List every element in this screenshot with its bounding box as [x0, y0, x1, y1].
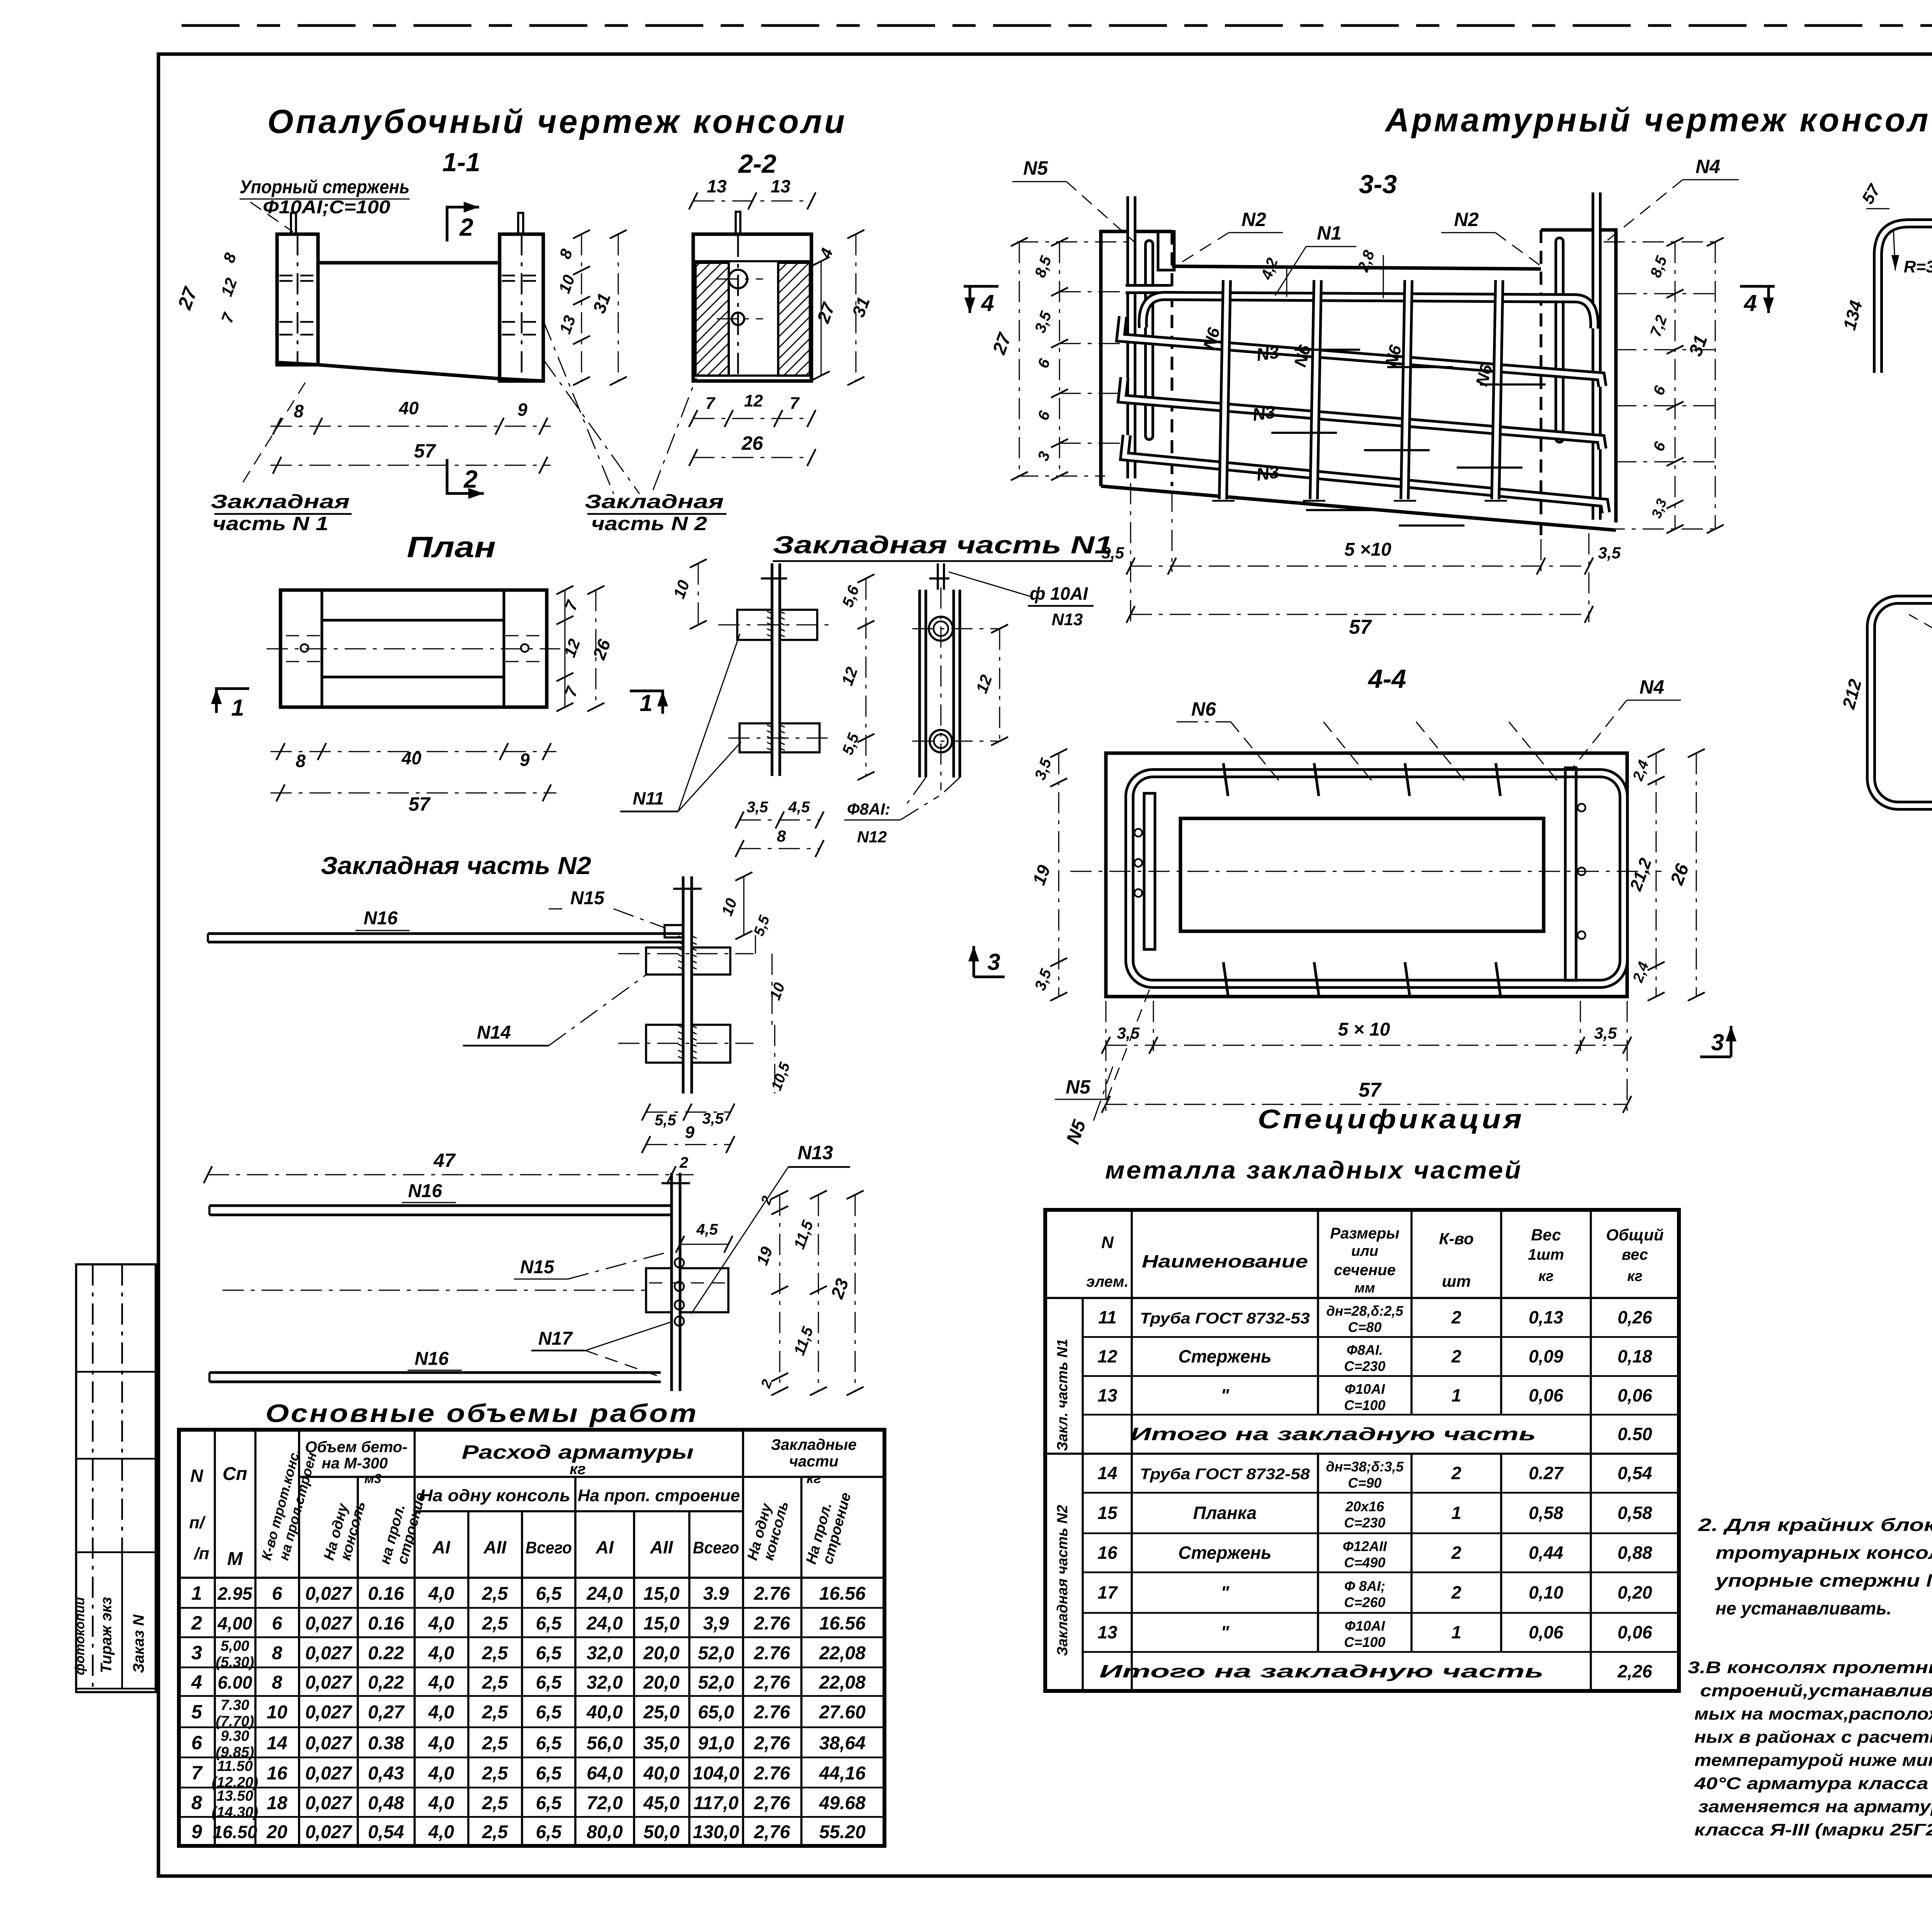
svg-text:15,0: 15,0: [643, 1584, 680, 1604]
svg-text:0,027: 0,027: [305, 1584, 352, 1604]
svg-text:13: 13: [707, 176, 727, 196]
svg-text:С=230: С=230: [1344, 1515, 1385, 1531]
svg-text:N16: N16: [364, 908, 398, 929]
svg-text:4: 4: [1743, 290, 1757, 316]
svg-text:4,0: 4,0: [428, 1733, 454, 1754]
svg-text:6,5: 6,5: [536, 1763, 562, 1784]
svg-text:2,5: 2,5: [482, 1822, 509, 1842]
svg-text:45,0: 45,0: [643, 1793, 680, 1813]
svg-text:2,5: 2,5: [482, 1793, 509, 1813]
svg-text:3,5: 3,5: [702, 1110, 724, 1127]
svg-text:1: 1: [1451, 1622, 1461, 1642]
svg-text:N1: N1: [1317, 222, 1342, 244]
svg-text:К-во: К-во: [1439, 1230, 1474, 1248]
svg-text:N: N: [1101, 1233, 1114, 1252]
svg-text:47: 47: [433, 1150, 456, 1171]
svg-text:N15: N15: [570, 888, 605, 908]
svg-text:0,10: 0,10: [1529, 1582, 1563, 1602]
svg-text:20x16: 20x16: [1345, 1499, 1384, 1514]
svg-text:N11: N11: [633, 788, 664, 808]
svg-text:сечение: сечение: [1334, 1262, 1396, 1279]
svg-text:часть N 1: часть N 1: [213, 513, 328, 534]
svg-text:": ": [1221, 1582, 1230, 1602]
svg-text:С=230: С=230: [1344, 1358, 1385, 1374]
svg-text:52,0: 52,0: [698, 1672, 734, 1693]
svg-text:130,0: 130,0: [693, 1822, 739, 1842]
svg-text:15,0: 15,0: [643, 1613, 680, 1634]
svg-text:16.56: 16.56: [819, 1613, 866, 1634]
svg-text:18: 18: [267, 1793, 287, 1813]
svg-text:С=490: С=490: [1344, 1555, 1385, 1570]
svg-text:(7.70): (7.70): [216, 1713, 254, 1730]
svg-text:4,0: 4,0: [428, 1763, 454, 1784]
svg-text:6,5: 6,5: [536, 1672, 562, 1693]
svg-text:80,0: 80,0: [587, 1822, 623, 1842]
svg-text:91,0: 91,0: [698, 1733, 734, 1754]
svg-text:4,0: 4,0: [428, 1822, 454, 1842]
svg-text:N4: N4: [1696, 156, 1720, 177]
svg-text:57: 57: [1349, 616, 1372, 638]
svg-text:20,0: 20,0: [643, 1643, 680, 1664]
svg-text:/п: /п: [193, 1544, 209, 1563]
svg-text:0,027: 0,027: [305, 1793, 352, 1813]
svg-text:3-3: 3-3: [1359, 170, 1397, 199]
svg-text:3.9: 3.9: [703, 1584, 729, 1604]
svg-text:4,5: 4,5: [696, 1221, 718, 1238]
svg-text:32,0: 32,0: [587, 1643, 623, 1664]
svg-text:2: 2: [191, 1612, 202, 1634]
svg-text:0.50: 0.50: [1617, 1424, 1652, 1444]
svg-text:1: 1: [231, 695, 244, 721]
svg-text:22,08: 22,08: [819, 1672, 866, 1693]
svg-text:N3: N3: [1255, 461, 1281, 485]
svg-text:9.30: 9.30: [221, 1728, 249, 1744]
svg-text:2: 2: [1451, 1346, 1461, 1366]
svg-text:5 × 10: 5 × 10: [1338, 1019, 1390, 1040]
svg-text:Закл. часть N1: Закл. часть N1: [1054, 1339, 1071, 1451]
svg-text:3,5: 3,5: [747, 799, 768, 816]
svg-text:Итого на закладную часть: Итого на закладную часть: [1130, 1424, 1536, 1444]
svg-text:8: 8: [191, 1792, 202, 1813]
svg-text:65,0: 65,0: [698, 1702, 734, 1723]
svg-text:5,5: 5,5: [655, 1112, 676, 1129]
svg-text:35,0: 35,0: [643, 1733, 680, 1754]
svg-text:7: 7: [706, 394, 716, 413]
svg-text:1шт: 1шт: [1528, 1246, 1564, 1263]
svg-text:5,00: 5,00: [221, 1638, 249, 1654]
svg-text:0,44: 0,44: [1529, 1543, 1563, 1563]
svg-text:0,20: 0,20: [1617, 1582, 1652, 1602]
svg-text:0,027: 0,027: [305, 1822, 352, 1842]
svg-text:22,08: 22,08: [819, 1643, 866, 1664]
svg-text:0,27: 0,27: [368, 1702, 405, 1723]
svg-text:части: части: [789, 1453, 838, 1470]
svg-text:N15: N15: [520, 1257, 554, 1277]
svg-text:0,06: 0,06: [1617, 1622, 1652, 1642]
svg-text:АII: АII: [650, 1537, 673, 1557]
svg-text:40: 40: [401, 748, 422, 768]
svg-text:4,5: 4,5: [788, 799, 810, 816]
svg-text:8: 8: [294, 401, 304, 421]
svg-text:С=100: С=100: [1344, 1397, 1385, 1413]
svg-text:Ф10АI: Ф10АI: [1345, 1381, 1385, 1397]
svg-text:0,43: 0,43: [368, 1763, 404, 1784]
svg-text:6,5: 6,5: [536, 1584, 562, 1604]
svg-text:52,0: 52,0: [698, 1643, 734, 1664]
svg-text:4: 4: [191, 1671, 202, 1693]
svg-text:3,5: 3,5: [1102, 544, 1124, 562]
svg-text:не устанавливать.: не устанавливать.: [1716, 1598, 1891, 1618]
svg-text:N13: N13: [798, 1142, 833, 1163]
svg-text:0,58: 0,58: [1617, 1503, 1652, 1523]
svg-text:40: 40: [398, 398, 419, 418]
svg-text:44,16: 44,16: [819, 1763, 866, 1784]
svg-text:0,26: 0,26: [1617, 1307, 1652, 1327]
svg-text:24,0: 24,0: [586, 1584, 623, 1604]
svg-text:": ": [1221, 1385, 1230, 1405]
svg-text:3,5: 3,5: [1594, 1024, 1617, 1042]
svg-text:Сп: Сп: [223, 1464, 247, 1484]
svg-text:2: 2: [679, 1154, 688, 1171]
svg-text:2.76: 2.76: [753, 1584, 790, 1604]
svg-text:дн=38;δ:3,5: дн=38;δ:3,5: [1326, 1459, 1404, 1475]
svg-text:N5: N5: [1023, 157, 1048, 179]
svg-text:0.27: 0.27: [1529, 1463, 1564, 1483]
svg-text:Всего: Всего: [693, 1538, 739, 1557]
svg-text:мых на мостах,расположен: мых на мостах,расположен: [1694, 1704, 1932, 1723]
svg-text:Закладная: Закладная: [585, 491, 724, 512]
svg-text:Упорный стержень: Упорный стержень: [240, 177, 410, 197]
svg-text:2,5: 2,5: [482, 1733, 509, 1754]
svg-text:13: 13: [1097, 1385, 1117, 1405]
svg-text:АI: АI: [432, 1537, 451, 1557]
svg-text:Стержень: Стержень: [1178, 1543, 1271, 1563]
svg-text:вес: вес: [1622, 1246, 1648, 1263]
svg-text:или: или: [1351, 1243, 1378, 1259]
svg-text:кг: кг: [1627, 1268, 1643, 1284]
svg-text:упорные стержни N13: упорные стержни N13: [1715, 1570, 1932, 1590]
svg-text:Опалубочный чертеж консоли: Опалубочный чертеж консоли: [267, 103, 847, 140]
svg-text:6,5: 6,5: [536, 1733, 562, 1754]
svg-text:Закладная часть N2: Закладная часть N2: [321, 852, 591, 879]
svg-text:Арматурный чертеж консоли: Арматурный чертеж консоли: [1384, 102, 1932, 139]
svg-text:2,26: 2,26: [1617, 1661, 1652, 1681]
svg-text:13.50: 13.50: [216, 1788, 253, 1804]
svg-text:6,5: 6,5: [536, 1702, 562, 1723]
svg-text:N12: N12: [857, 828, 887, 846]
svg-text:Труба ГОСТ 8732-53: Труба ГОСТ 8732-53: [1140, 1310, 1310, 1327]
svg-text:2-2: 2-2: [738, 149, 776, 179]
svg-text:0.16: 0.16: [368, 1584, 404, 1604]
svg-text:2,5: 2,5: [482, 1763, 509, 1784]
svg-text:0,027: 0,027: [305, 1733, 352, 1754]
svg-text:0,88: 0,88: [1617, 1543, 1652, 1563]
svg-text:1: 1: [639, 690, 652, 716]
svg-text:2: 2: [1451, 1543, 1461, 1563]
svg-text:N16: N16: [415, 1349, 449, 1369]
svg-text:56,0: 56,0: [587, 1733, 623, 1754]
svg-text:7.30: 7.30: [221, 1697, 249, 1713]
svg-text:4,0: 4,0: [428, 1584, 454, 1604]
svg-text:класса Я-III (марки 25Г2С).: класса Я-III (марки 25Г2С).: [1694, 1820, 1932, 1839]
svg-text:п/: п/: [189, 1513, 206, 1532]
svg-text:кг: кг: [570, 1461, 586, 1478]
svg-text:Наименование: Наименование: [1142, 1251, 1308, 1271]
svg-text:N4: N4: [1639, 676, 1664, 698]
svg-text:С=90: С=90: [1348, 1475, 1381, 1491]
svg-text:5 ×10: 5 ×10: [1344, 539, 1391, 560]
svg-text:0.38: 0.38: [368, 1733, 404, 1754]
svg-text:N14: N14: [477, 1022, 511, 1043]
svg-text:ф 10АI: ф 10АI: [1030, 583, 1088, 604]
svg-text:12: 12: [1097, 1346, 1117, 1366]
svg-text:кг: кг: [1538, 1268, 1554, 1284]
svg-text:2,76: 2,76: [753, 1733, 790, 1754]
svg-text:9: 9: [517, 400, 527, 420]
svg-text:55.20: 55.20: [819, 1822, 866, 1842]
svg-text:2: 2: [463, 465, 478, 493]
svg-text:0,09: 0,09: [1529, 1346, 1563, 1366]
svg-text:4,0: 4,0: [428, 1793, 454, 1813]
svg-text:4: 4: [981, 290, 994, 316]
svg-text:6,5: 6,5: [536, 1793, 562, 1813]
svg-text:Планка: Планка: [1193, 1503, 1257, 1523]
svg-text:16: 16: [267, 1763, 287, 1784]
svg-text:АII: АII: [483, 1537, 507, 1557]
svg-text:Размеры: Размеры: [1330, 1225, 1399, 1242]
svg-text:2: 2: [459, 213, 473, 241]
svg-text:8: 8: [777, 827, 786, 845]
svg-text:15: 15: [1097, 1503, 1118, 1523]
svg-text:27.60: 27.60: [819, 1702, 866, 1723]
svg-text:3.В консолях пролетных: 3.В консолях пролетных: [1688, 1658, 1932, 1677]
svg-text:Закладная часть N2: Закладная часть N2: [1054, 1505, 1071, 1656]
svg-text:(5.30): (5.30): [216, 1654, 254, 1670]
svg-text:25,0: 25,0: [643, 1702, 680, 1723]
svg-text:N16: N16: [408, 1181, 442, 1201]
svg-text:5: 5: [191, 1701, 202, 1723]
svg-text:0,027: 0,027: [305, 1702, 352, 1723]
svg-text:R=36: R=36: [1904, 257, 1932, 276]
svg-text:104,0: 104,0: [693, 1763, 739, 1784]
svg-text:0.22: 0.22: [368, 1643, 404, 1664]
svg-text:Заказ N: Заказ N: [130, 1614, 147, 1673]
svg-text:0,06: 0,06: [1529, 1385, 1563, 1405]
svg-text:": ": [1221, 1622, 1230, 1642]
svg-text:20: 20: [266, 1822, 287, 1842]
svg-text:1: 1: [1451, 1385, 1461, 1405]
svg-text:Объем бето-: Объем бето-: [305, 1439, 408, 1456]
svg-text:0,48: 0,48: [368, 1793, 404, 1813]
svg-text:9: 9: [685, 1123, 695, 1142]
svg-text:2,5: 2,5: [482, 1672, 509, 1693]
svg-text:6: 6: [191, 1732, 202, 1754]
svg-text:2.76: 2.76: [753, 1763, 790, 1784]
svg-text:3,5: 3,5: [1598, 544, 1621, 562]
svg-text:2,76: 2,76: [753, 1672, 790, 1693]
svg-text:2,5: 2,5: [482, 1584, 509, 1604]
svg-text:С=80: С=80: [1348, 1319, 1381, 1335]
svg-text:мм: мм: [1354, 1280, 1375, 1296]
svg-text:57: 57: [408, 793, 431, 815]
svg-text:Тираж экз: Тираж экз: [98, 1597, 115, 1673]
svg-text:7: 7: [790, 394, 800, 413]
svg-text:Ф8АI.: Ф8АI.: [1347, 1342, 1383, 1358]
svg-text:49.68: 49.68: [819, 1793, 866, 1813]
svg-text:Итого на закладную часть: Итого на закладную часть: [1099, 1661, 1544, 1681]
svg-text:2. Для крайних блоков: 2. Для крайних блоков: [1698, 1515, 1932, 1535]
svg-text:Ф8АI:: Ф8АI:: [847, 800, 890, 818]
svg-text:N: N: [190, 1466, 203, 1486]
svg-text:На одну консоль: На одну консоль: [420, 1486, 570, 1505]
svg-text:64,0: 64,0: [587, 1763, 623, 1784]
svg-text:заменяется на арматуру: заменяется на арматуру: [1698, 1797, 1932, 1816]
svg-text:2: 2: [1451, 1463, 1461, 1483]
svg-text:2,76: 2,76: [753, 1822, 790, 1842]
svg-text:20,0: 20,0: [643, 1672, 680, 1693]
svg-text:7: 7: [191, 1762, 203, 1784]
svg-text:фотокопии: фотокопии: [73, 1597, 87, 1675]
svg-text:N3: N3: [1255, 342, 1281, 365]
svg-text:Спецификация: Спецификация: [1258, 1104, 1524, 1134]
svg-text:М: М: [227, 1549, 243, 1569]
svg-text:металла закладных частей: металла закладных частей: [1105, 1156, 1522, 1184]
svg-text:6,5: 6,5: [536, 1643, 562, 1664]
svg-text:На проп. строение: На проп. строение: [578, 1486, 740, 1505]
svg-text:9: 9: [520, 750, 530, 770]
svg-text:0.16: 0.16: [368, 1613, 404, 1634]
svg-text:117,0: 117,0: [694, 1793, 739, 1813]
svg-text:N17: N17: [538, 1328, 573, 1349]
svg-text:50,0: 50,0: [643, 1822, 680, 1842]
svg-text:АI: АI: [595, 1537, 614, 1557]
svg-text:11: 11: [1098, 1307, 1117, 1327]
svg-text:3,5: 3,5: [1117, 1024, 1140, 1042]
svg-text:2.76: 2.76: [753, 1702, 790, 1723]
svg-text:ных в районах с расчетной: ных в районах с расчетной: [1694, 1728, 1932, 1747]
svg-text:2,5: 2,5: [482, 1643, 509, 1664]
svg-text:0,06: 0,06: [1617, 1385, 1652, 1405]
svg-text:4,0: 4,0: [428, 1672, 454, 1693]
svg-text:N5: N5: [1066, 1076, 1091, 1098]
svg-text:32,0: 32,0: [587, 1672, 623, 1693]
svg-text:2,76: 2,76: [753, 1793, 790, 1813]
svg-text:14: 14: [1097, 1463, 1117, 1483]
svg-text:8: 8: [272, 1643, 282, 1664]
svg-text:0,58: 0,58: [1529, 1503, 1563, 1523]
svg-text:4,0: 4,0: [428, 1613, 454, 1634]
svg-text:13: 13: [770, 176, 791, 196]
svg-text:температурой ниже минус: температурой ниже минус: [1694, 1751, 1932, 1770]
svg-text:3: 3: [191, 1642, 202, 1664]
svg-text:6: 6: [272, 1584, 282, 1604]
svg-text:1: 1: [1451, 1503, 1461, 1523]
svg-text:N2: N2: [1454, 209, 1479, 230]
svg-text:Вес: Вес: [1531, 1226, 1561, 1244]
svg-text:Закладная часть N1: Закладная часть N1: [773, 531, 1113, 559]
svg-text:2: 2: [1451, 1307, 1461, 1327]
svg-text:2,5: 2,5: [482, 1702, 509, 1723]
svg-text:тротуарных консолей: тротуарных консолей: [1716, 1543, 1932, 1563]
svg-text:Всего: Всего: [526, 1538, 572, 1557]
svg-text:Общий: Общий: [1606, 1226, 1663, 1244]
svg-text:0,027: 0,027: [305, 1763, 352, 1784]
svg-text:Ф10АI;С=100: Ф10АI;С=100: [263, 197, 390, 218]
svg-text:N3: N3: [1251, 401, 1277, 425]
svg-text:3: 3: [1711, 1029, 1724, 1055]
svg-text:Основные объемы работ: Основные объемы работ: [265, 1399, 698, 1427]
svg-text:2.76: 2.76: [753, 1613, 790, 1634]
svg-text:С=260: С=260: [1344, 1594, 1385, 1610]
svg-text:шт: шт: [1442, 1272, 1471, 1290]
svg-text:10: 10: [267, 1702, 287, 1723]
svg-text:Закладные: Закладные: [771, 1436, 857, 1453]
svg-text:Ф 8АI;: Ф 8АI;: [1344, 1578, 1385, 1594]
svg-text:17: 17: [1097, 1582, 1118, 1602]
svg-text:6: 6: [272, 1613, 282, 1634]
svg-text:Расход арматуры: Расход арматуры: [462, 1441, 694, 1463]
svg-text:1: 1: [191, 1582, 202, 1604]
svg-text:4-4: 4-4: [1367, 664, 1406, 694]
svg-text:24,0: 24,0: [586, 1613, 623, 1634]
svg-text:0,06: 0,06: [1529, 1622, 1563, 1642]
svg-text:40°С арматура класса ЯII: 40°С арматура класса ЯII: [1694, 1774, 1932, 1793]
svg-text:4,00: 4,00: [217, 1613, 252, 1633]
svg-text:дн=28,δ:2,5: дн=28,δ:2,5: [1326, 1303, 1403, 1319]
svg-text:16: 16: [1097, 1543, 1117, 1563]
svg-text:Закладная: Закладная: [211, 491, 350, 512]
svg-text:38,64: 38,64: [819, 1733, 866, 1754]
svg-text:на М-300: на М-300: [322, 1455, 388, 1472]
svg-text:Труба ГОСТ 8732-58: Труба ГОСТ 8732-58: [1140, 1466, 1310, 1483]
svg-text:2,5: 2,5: [482, 1613, 509, 1634]
svg-text:6,5: 6,5: [536, 1613, 562, 1634]
svg-text:План: План: [407, 531, 496, 564]
svg-text:0,027: 0,027: [305, 1643, 352, 1664]
svg-text:Ф12АII: Ф12АII: [1343, 1538, 1387, 1554]
svg-text:8: 8: [296, 751, 306, 771]
svg-text:N2: N2: [1242, 209, 1266, 230]
svg-text:26: 26: [741, 432, 764, 454]
svg-text:1-1: 1-1: [442, 148, 480, 177]
svg-text:0,54: 0,54: [368, 1822, 404, 1842]
svg-text:строений,устанавливае-: строений,устанавливае-: [1700, 1681, 1932, 1700]
svg-text:м3: м3: [364, 1471, 381, 1486]
svg-text:0,027: 0,027: [305, 1613, 352, 1634]
svg-text:40,0: 40,0: [643, 1763, 680, 1784]
svg-text:9: 9: [191, 1821, 202, 1842]
svg-text:0,54: 0,54: [1617, 1463, 1652, 1483]
svg-text:2: 2: [1451, 1582, 1461, 1602]
svg-text:4,0: 4,0: [428, 1643, 454, 1664]
svg-text:11.50: 11.50: [217, 1758, 253, 1774]
svg-text:2.95: 2.95: [217, 1584, 253, 1604]
svg-text:2.76: 2.76: [753, 1643, 790, 1664]
svg-text:кг: кг: [806, 1470, 821, 1486]
svg-text:13: 13: [1097, 1622, 1117, 1642]
svg-text:элем.: элем.: [1086, 1273, 1128, 1290]
svg-text:8: 8: [272, 1672, 282, 1693]
svg-text:N13: N13: [1052, 610, 1083, 629]
svg-text:57: 57: [414, 440, 436, 462]
svg-text:16.56: 16.56: [819, 1584, 866, 1604]
svg-text:40,0: 40,0: [586, 1702, 623, 1723]
svg-text:0,13: 0,13: [1529, 1307, 1563, 1327]
svg-text:часть N 2: часть N 2: [591, 513, 707, 534]
svg-text:57: 57: [1359, 1079, 1382, 1101]
svg-text:3: 3: [987, 949, 1000, 975]
svg-text:4,0: 4,0: [428, 1702, 454, 1723]
